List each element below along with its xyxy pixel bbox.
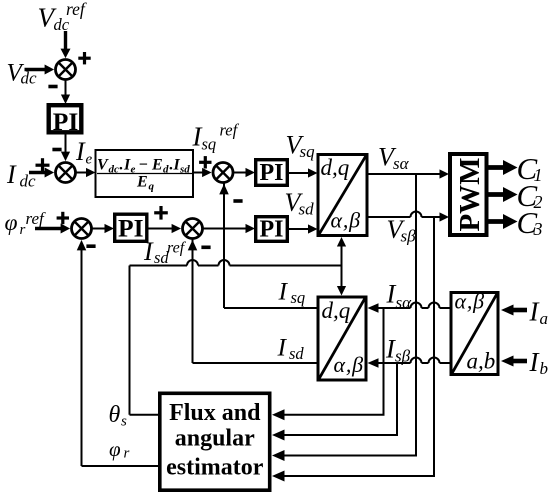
- svg-text:I: I: [6, 160, 17, 189]
- svg-text:ref: ref: [66, 0, 87, 19]
- svg-text:e: e: [86, 152, 93, 168]
- svg-text:r: r: [124, 446, 130, 462]
- svg-text:φ: φ: [109, 437, 121, 461]
- svg-text:φ: φ: [5, 210, 18, 236]
- svg-text:I: I: [75, 137, 86, 166]
- svg-text:sq: sq: [291, 288, 306, 307]
- svg-text:ref: ref: [167, 240, 187, 257]
- svg-text:d,q: d,q: [322, 298, 351, 323]
- svg-text:angular: angular: [175, 426, 255, 452]
- svg-text:d,q: d,q: [321, 155, 350, 180]
- svg-text:V: V: [97, 157, 109, 174]
- svg-text:a: a: [540, 309, 549, 328]
- svg-text:sq: sq: [300, 142, 316, 161]
- svg-text:I: I: [143, 237, 154, 266]
- svg-text:α,β: α,β: [334, 352, 364, 377]
- svg-text:sd: sd: [289, 344, 304, 363]
- svg-text:α,β: α,β: [331, 208, 361, 233]
- svg-text:sβ: sβ: [401, 227, 417, 246]
- svg-text:sq: sq: [202, 135, 217, 154]
- svg-text:dc: dc: [21, 69, 38, 88]
- svg-text:PI: PI: [260, 217, 284, 243]
- svg-text:q: q: [149, 181, 155, 193]
- svg-text:estimator: estimator: [166, 455, 264, 481]
- svg-text:PI: PI: [118, 214, 144, 243]
- svg-text:s: s: [121, 414, 127, 430]
- svg-text:I: I: [278, 277, 289, 306]
- svg-text:sβ: sβ: [395, 347, 411, 366]
- svg-text:PI: PI: [53, 107, 79, 136]
- svg-text:ref: ref: [26, 209, 47, 228]
- svg-text:b: b: [540, 359, 549, 378]
- svg-text:PI: PI: [260, 160, 284, 186]
- svg-text:θ: θ: [109, 402, 121, 428]
- svg-text:−: −: [139, 157, 149, 174]
- svg-text:PWM: PWM: [454, 157, 486, 231]
- svg-text:E: E: [136, 174, 148, 191]
- svg-text:.: .: [120, 157, 124, 174]
- svg-text:sd: sd: [299, 200, 315, 219]
- svg-text:E: E: [151, 157, 163, 174]
- svg-text:I: I: [277, 333, 288, 362]
- svg-text:sα: sα: [396, 293, 413, 312]
- svg-text:Flux and: Flux and: [169, 400, 261, 426]
- svg-text:dc: dc: [20, 172, 37, 191]
- svg-text:a,b: a,b: [467, 349, 496, 374]
- svg-text:3: 3: [533, 219, 543, 239]
- svg-text:ref: ref: [220, 121, 240, 140]
- svg-text:α,β: α,β: [455, 289, 485, 314]
- svg-text:sα: sα: [393, 154, 410, 173]
